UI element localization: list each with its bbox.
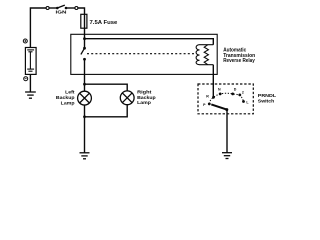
wire IGN to fuse [78,8,85,14]
battery B1 [25,48,36,75]
svg-text:Backup: Backup [56,95,75,101]
svg-text:PRNDL: PRNDL [258,93,276,99]
wire PRNDL pivot to ground [226,110,228,153]
svg-text:N: N [218,87,221,91]
switch IGN blade [57,5,65,8]
PRNDL contact R [212,96,215,99]
PRNDL contact arc dotted [209,93,243,104]
PRNDL contact N [219,93,222,96]
label Right Backup Lamp [137,89,156,106]
relay switch blade [81,48,85,54]
svg-text:P: P [203,103,206,107]
relay switch bottom contact [83,58,86,61]
PRNDL wiper arm [211,104,227,109]
wire battery to ground [29,74,31,92]
svg-text:D: D [234,87,237,91]
relay box outline [71,34,217,74]
relay coil K1 [196,45,213,65]
svg-text:R: R [206,95,209,99]
switch IGN contact dot right [65,7,68,10]
PRNDL wiper pivot [225,108,228,111]
label PRNDL Switch [258,93,276,105]
PRNDL contact 2 [238,94,241,97]
wire junction to coil top [85,39,214,45]
svg-text:L: L [246,100,249,104]
svg-text:Lamp: Lamp [137,100,151,106]
svg-text:7.5A Fuse: 7.5A Fuse [90,20,118,26]
switch IGN contact dot left [56,7,59,10]
node junction to coil [83,37,86,40]
svg-text:Reverse Relay: Reverse Relay [223,58,255,64]
switch IGN terminal circle left [46,7,49,10]
wire through fuse down to relay [84,14,86,48]
wire [49,7,57,9]
lamp left (Left Backup Lamp) [78,91,92,105]
battery negative terminal [24,77,28,81]
svg-text:Lamp: Lamp [61,101,75,107]
svg-text:Backup: Backup [137,95,156,101]
wire battery to IGN switch [30,8,46,48]
ground (lamps) [80,153,90,159]
wire left lamp to bottom junction [84,105,86,153]
switch IGN terminal circle right [75,7,78,10]
relay switch top contact [83,47,86,50]
wire right lamp to bottom junction [85,105,128,117]
label Left Backup Lamp [56,90,75,107]
PRNDL switch box dashed [198,84,253,114]
PRNDL contact D [231,93,234,96]
node lamp bottom junction [83,115,86,118]
PRNDL contact P [208,103,211,106]
svg-text:Left: Left [65,90,75,96]
fuse F1 body [81,14,87,28]
svg-text:Right: Right [137,89,152,95]
svg-text:IGN: IGN [56,10,68,16]
PRNDL contact L [242,100,245,103]
wire relay to lamps junction [84,59,86,91]
svg-text:2: 2 [242,91,244,95]
node lamp top junction [83,83,86,86]
label Automatic Transmission Reverse Relay [223,48,255,64]
wire top junction to right lamp [85,84,128,91]
wire [66,7,75,9]
battery positive terminal [23,39,27,43]
svg-text:Switch: Switch [258,99,274,105]
ground (PRNDL) [222,153,232,159]
relay linkage dashed [87,53,196,55]
wire coil bottom to PRNDL switch [212,65,214,98]
lamp right (Right Backup Lamp) [120,91,134,105]
ground (battery) [25,92,36,98]
